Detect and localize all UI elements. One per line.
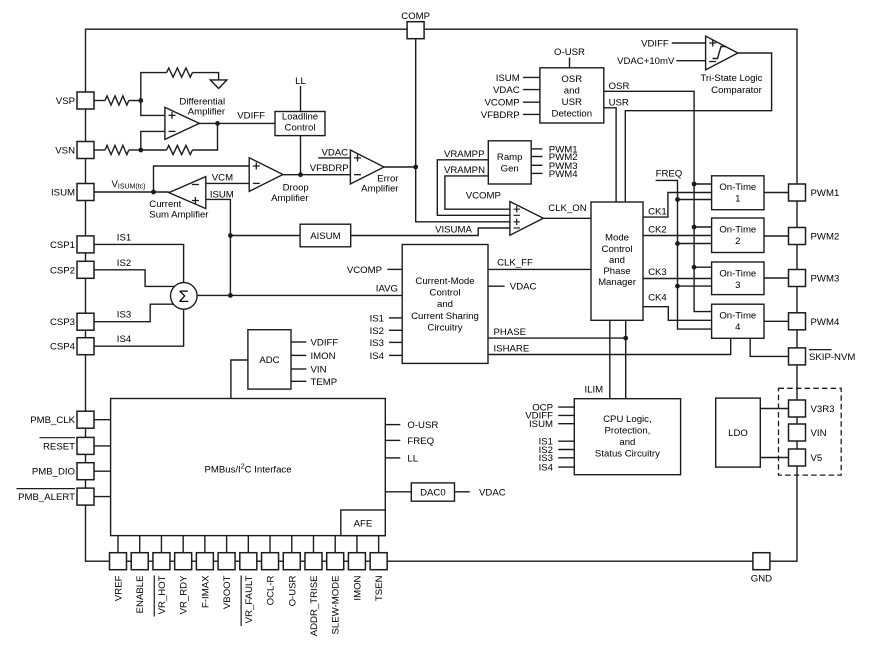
svg-text:VDAC: VDAC [479, 487, 506, 498]
wire PMBus to pin ADDR_TRISE [312, 536, 314, 553]
wire FREQ branch y286.1 [678, 285, 712, 287]
junction PHASE [623, 336, 628, 341]
svg-text:AISUM: AISUM [310, 231, 340, 242]
svg-text:Tri-State Logic: Tri-State Logic [700, 73, 762, 84]
wire PMBus to pin ENABLE [139, 536, 141, 553]
wire PMBus to pin VREF [117, 536, 119, 553]
pin TSEN [370, 553, 387, 570]
wire LL stem [300, 86, 302, 112]
junction ISUM AISUM [228, 233, 233, 238]
svg-text:O-USR: O-USR [287, 575, 298, 606]
svg-text:VISUMA: VISUMA [435, 225, 472, 236]
wire CK4 [643, 307, 712, 321]
svg-text:IS1: IS1 [370, 313, 384, 324]
wire O-USR stub [385, 424, 400, 426]
svg-text:V5: V5 [811, 453, 823, 464]
op-amp error amplifier [350, 150, 384, 184]
wire ILIM [609, 320, 611, 398]
block On-Time 2 [712, 218, 764, 253]
svg-text:IAVG: IAVG [376, 283, 398, 294]
pin SLEW-MODE [327, 553, 344, 570]
op-amp droop amplifier [249, 158, 283, 192]
svg-text:PWM4: PWM4 [811, 317, 840, 328]
wire IS3 stub cm [389, 341, 402, 343]
svg-text:VCM: VCM [212, 173, 233, 184]
svg-text:VDAC+10mV: VDAC+10mV [617, 56, 675, 67]
ground symbol [210, 80, 227, 89]
pin ENABLE [131, 553, 148, 570]
wire On-Time 3 to PWM3 [764, 277, 789, 279]
wire ISUM to AISUM [230, 235, 300, 237]
wire feedback resistor to output [192, 123, 217, 150]
junction OSR y227 [692, 225, 697, 230]
wire VFBDRP to OSR [523, 113, 540, 115]
svg-text:PWM4: PWM4 [549, 169, 578, 180]
svg-text:PWM2: PWM2 [811, 232, 840, 243]
wire error amp output [384, 166, 416, 168]
svg-text:VCOMP: VCOMP [485, 98, 520, 109]
wire ramp PWM1 stub [531, 148, 542, 150]
wire VSN lead [94, 149, 105, 151]
wire IS2 stub cm [389, 329, 402, 331]
svg-text:IMON: IMON [311, 351, 336, 362]
wire CLK_ON [543, 217, 591, 219]
svg-text:CSP4: CSP4 [50, 342, 76, 353]
pin VR_FAULT [240, 553, 257, 570]
svg-text:VR_HOT: VR_HOT [157, 575, 168, 614]
pin PWM2 [789, 228, 806, 245]
svg-text:On-Time: On-Time [719, 182, 756, 193]
svg-text:Amplifier: Amplifier [188, 106, 226, 117]
junction diff amp output [215, 121, 220, 126]
svg-text:LL: LL [295, 76, 306, 87]
wire IS1 stub cm [389, 317, 402, 319]
pin COMP [407, 22, 424, 39]
svg-text:GND: GND [751, 574, 772, 585]
svg-text:VIN: VIN [311, 365, 327, 376]
pin GND [753, 553, 770, 570]
pin VR_RDY [175, 553, 192, 570]
svg-text:Mode: Mode [605, 233, 629, 244]
block Loadline Control [275, 112, 325, 136]
block AISUM [300, 224, 351, 247]
wire VDIFF diff amp output [199, 122, 275, 124]
junction ISUM vert IAVG [228, 293, 233, 298]
svg-text:3: 3 [735, 280, 740, 291]
svg-text:VSN: VSN [55, 146, 75, 157]
svg-text:CSP2: CSP2 [50, 265, 75, 276]
junction FREQ y199.5 [675, 197, 680, 202]
wire PMBus to pin F-IMAX [204, 536, 206, 553]
wire ADC to PMBus [231, 360, 248, 399]
wire IS1 [94, 244, 184, 282]
wire VDAC stub cm [488, 285, 505, 287]
svg-text:Gen: Gen [501, 164, 519, 175]
junction ISUM node [151, 190, 156, 195]
wire PMB_ALERT to PMBus [94, 496, 111, 498]
summer sigma [171, 283, 198, 310]
svg-text:IS4: IS4 [539, 462, 554, 473]
wire PMBus to pin OCL-R [269, 536, 271, 553]
block Mode Control [591, 202, 643, 320]
wire OSR branch y227 [694, 226, 712, 228]
svg-text:1: 1 [735, 194, 740, 205]
svg-text:Control: Control [285, 123, 316, 134]
svg-text:IS4: IS4 [117, 334, 132, 345]
svg-text:Control: Control [602, 244, 633, 255]
pin PWM3 [789, 270, 806, 287]
wire VCOMP to OSR [523, 101, 540, 103]
wire node B to feedback resistor [141, 149, 167, 151]
wire VDAC to OSR [523, 89, 540, 91]
wire ramp PWM2 stub [531, 156, 542, 158]
pin PMB_CLK [77, 411, 94, 428]
wire VISUMA [351, 228, 510, 236]
overline SKIP [809, 349, 832, 351]
svg-text:PMB_CLK: PMB_CLK [30, 415, 75, 426]
wire VCOMP stub cm [387, 268, 402, 270]
wire FREQ stub [385, 439, 400, 441]
svg-text:CSP1: CSP1 [50, 240, 75, 251]
svg-text:ILIM: ILIM [585, 385, 604, 396]
wire IS3 to CPU [558, 457, 574, 459]
svg-text:Amplifier: Amplifier [361, 183, 399, 194]
svg-text:VR_FAULT: VR_FAULT [244, 575, 255, 623]
pin VSP [77, 92, 94, 109]
block PMBus Interface [111, 399, 386, 536]
svg-text:4: 4 [735, 322, 741, 333]
block On-Time 4 [712, 304, 764, 338]
wire VCOMP to comparator [416, 167, 510, 222]
wire CK2 [643, 235, 712, 237]
pin SKIP-NVM [789, 348, 806, 365]
svg-text:RESET: RESET [43, 441, 75, 452]
resistor VSN input [105, 145, 129, 154]
wire VSP lead [94, 100, 105, 102]
svg-text:Detection: Detection [552, 109, 593, 120]
svg-text:VREF: VREF [114, 575, 125, 601]
wire On-Time4 to SKIP-NVM [750, 338, 788, 356]
pin OCL-R [262, 553, 279, 570]
svg-text:USR: USR [562, 97, 582, 108]
wire IS3 [94, 304, 173, 322]
svg-text:VRAMPP: VRAMPP [444, 149, 485, 160]
overline VR_FAULT [240, 576, 242, 627]
wire RESET to PMBus [94, 445, 111, 447]
svg-text:CK1: CK1 [648, 206, 667, 217]
svg-text:FREQ: FREQ [407, 436, 434, 447]
svg-text:ISUM: ISUM [210, 189, 234, 200]
wire FREQ branch y243.5 [678, 243, 712, 245]
wire FREQ net [656, 180, 712, 329]
svg-text:ENABLE: ENABLE [135, 576, 146, 614]
op-amp current sum amplifier [169, 177, 206, 209]
wire ISUM pin to sum amp [94, 191, 169, 193]
svg-text:CK4: CK4 [648, 293, 667, 304]
svg-text:and: and [437, 299, 453, 310]
svg-text:Comparator: Comparator [711, 85, 762, 96]
wire O-USR stem [569, 58, 571, 68]
wire resistor to ground [192, 73, 218, 80]
svg-text:Amplifier: Amplifier [271, 193, 309, 204]
svg-text:OCL-R: OCL-R [266, 575, 277, 605]
junction OSR y267.2 [692, 265, 697, 270]
wire CK3 [643, 278, 712, 280]
junction OSR y184 [692, 182, 697, 187]
svg-text:ISUM: ISUM [529, 419, 553, 430]
wire PMBus to pin SLEW-MODE [334, 536, 336, 553]
wire OSR net [604, 91, 712, 311]
svg-text:USR: USR [609, 97, 629, 108]
junction node A [138, 98, 143, 103]
junction error output COMP [413, 165, 418, 170]
wire PHASE to CPU [625, 320, 627, 398]
svg-text:VBOOT: VBOOT [222, 575, 233, 609]
wire ADC VIN stub [291, 368, 306, 370]
pin VBOOT [218, 553, 235, 570]
wire CLK_FF [488, 268, 591, 270]
wire VSN resistor to node B [129, 149, 141, 151]
wire ISUM to OSR [523, 76, 540, 78]
wire PMBus to pin VR_FAULT [247, 536, 249, 553]
pin ADDR_TRISE [305, 553, 322, 570]
svg-text:Current-Mode: Current-Mode [415, 276, 474, 287]
wire VDAC to error amp + [318, 157, 350, 159]
svg-text:Protection,: Protection, [604, 426, 650, 437]
svg-text:ISUM: ISUM [496, 73, 520, 84]
svg-text:PWM3: PWM3 [811, 274, 840, 285]
wire IS2 [94, 270, 175, 287]
wire ADC IMON stub [291, 354, 306, 356]
wire ramp PWM3 stub [531, 164, 542, 166]
pin VIN [789, 424, 806, 441]
wire node B to diff amp - input [141, 131, 165, 150]
svg-text:ISUM: ISUM [51, 188, 75, 199]
svg-text:Droop: Droop [283, 183, 309, 194]
wire PMBus to DAC0 [385, 491, 411, 493]
wire USR net [604, 108, 616, 202]
svg-text:Circuitry: Circuitry [427, 323, 462, 334]
svg-text:O-USR: O-USR [407, 420, 438, 431]
wire VDIFF to comparator [672, 42, 706, 44]
svg-text:SKIP-NVM: SKIP-NVM [809, 352, 855, 363]
svg-text:IS2: IS2 [117, 258, 131, 269]
svg-text:ADC: ADC [259, 355, 279, 366]
svg-text:Σ: Σ [179, 287, 190, 306]
svg-text:LL: LL [407, 453, 418, 464]
resistor VSP input [105, 96, 129, 105]
block On-Time 1 [712, 176, 764, 210]
svg-text:VDAC: VDAC [510, 282, 537, 293]
overline PMB_ALERT [17, 488, 76, 490]
svg-text:VCOMP: VCOMP [466, 190, 501, 201]
svg-text:VFBDRP: VFBDRP [310, 163, 349, 174]
svg-text:VDAC: VDAC [493, 85, 520, 96]
svg-text:O-USR: O-USR [554, 47, 585, 58]
pin PWM1 [789, 184, 806, 201]
pin F-IMAX [196, 553, 213, 570]
svg-text:VSP: VSP [56, 96, 75, 107]
svg-text:On-Time: On-Time [719, 224, 756, 235]
svg-text:Status Circuitry: Status Circuitry [595, 449, 660, 460]
svg-text:F-IMAX: F-IMAX [200, 575, 211, 608]
svg-text:IS3: IS3 [370, 338, 384, 349]
wire PHASE [488, 337, 626, 339]
svg-text:Manager: Manager [598, 277, 637, 288]
block Current-Mode Control [402, 245, 488, 364]
svg-text:ADDR_TRISE: ADDR_TRISE [309, 576, 320, 637]
wire Loadline to droop output [300, 136, 302, 175]
svg-text:VDAC: VDAC [321, 148, 348, 159]
svg-text:PMBus/I2C Interface: PMBus/I2C Interface [204, 464, 291, 476]
junction FREQ y286.1 [675, 284, 680, 289]
svg-text:VDIFF: VDIFF [237, 111, 265, 122]
wire VRAMPN [445, 176, 510, 209]
wire CK1 [643, 193, 712, 218]
block LDO [716, 398, 761, 467]
svg-text:IMON: IMON [352, 575, 363, 600]
svg-text:ISHARE: ISHARE [494, 344, 530, 355]
junction node B [138, 148, 143, 153]
pin CSP4 [77, 338, 94, 355]
wire node A up to feedback [141, 73, 167, 101]
svg-text:VRAMPN: VRAMPN [444, 165, 485, 176]
wire On-Time 2 to PWM2 [764, 235, 789, 237]
wire ISUM to CPU [558, 423, 574, 425]
wire LL stub [385, 457, 400, 459]
block AFE [341, 510, 386, 536]
wire IS4 stub cm [389, 354, 402, 356]
svg-text:VR_RDY: VR_RDY [179, 575, 190, 615]
pin CSP2 [77, 261, 94, 278]
pin VSN [77, 142, 94, 159]
op-amp differential amplifier [165, 107, 199, 139]
wire ADC VDIFF stub [291, 341, 306, 343]
svg-text:Current Sharing: Current Sharing [411, 311, 479, 322]
svg-text:FREQ: FREQ [656, 168, 683, 179]
svg-text:IS4: IS4 [370, 351, 385, 362]
wire tri-state output [625, 53, 771, 202]
hysteresis symbol [713, 47, 727, 59]
dashed supply box [779, 388, 842, 475]
comparator clock [510, 202, 543, 236]
svg-text:CK2: CK2 [648, 225, 667, 236]
wire VDIFF to CPU [558, 414, 574, 416]
wire ISUM node to droop + input [154, 166, 250, 192]
svg-text:PHASE: PHASE [494, 327, 527, 338]
wire On-Time 4 to PWM4 [764, 320, 789, 322]
wire COMP pin to error amp output [415, 39, 417, 167]
wire On-Time 1 to PWM1 [764, 192, 789, 194]
svg-text:PWM1: PWM1 [811, 188, 840, 199]
wire PMBus to pin VBOOT [226, 536, 228, 553]
wire IAVG sigma output [197, 294, 402, 296]
svg-text:On-Time: On-Time [719, 268, 756, 279]
svg-text:Ramp: Ramp [497, 152, 523, 163]
svg-text:2: 2 [735, 236, 740, 247]
svg-text:V3R3: V3R3 [811, 404, 835, 415]
svg-text:VCOMP: VCOMP [347, 265, 382, 276]
wire FREQ branch y199.5 [678, 199, 712, 201]
svg-text:CLK_ON: CLK_ON [548, 203, 586, 214]
wire ADC TEMP stub [291, 380, 306, 382]
svg-text:LDO: LDO [728, 428, 748, 439]
svg-text:PMB_ALERT: PMB_ALERT [18, 492, 75, 503]
wire IS4 to CPU [558, 466, 574, 468]
wire VCM [206, 182, 249, 184]
svg-text:PMB_DIO: PMB_DIO [32, 467, 75, 478]
wire OCP to CPU [558, 406, 574, 408]
wire OSR branch y184 [694, 183, 712, 185]
wire IS2 to CPU [558, 449, 574, 451]
pin VREF [110, 553, 127, 570]
wire LDO to V5 [760, 457, 788, 459]
overline VR_HOT [153, 576, 155, 617]
svg-text:IS3: IS3 [117, 310, 131, 321]
block CPU Logic [574, 399, 680, 475]
block Ramp Gen [488, 141, 531, 184]
wire ISHARE [488, 338, 731, 354]
wire PMBus to pin TSEN [378, 536, 380, 553]
wire PMBus to pin O-USR [291, 536, 293, 553]
svg-text:Phase: Phase [603, 266, 630, 277]
pin RESET [77, 437, 94, 454]
wire PMBus to pin IMON [356, 536, 358, 553]
wire VDAC+10mV to comparator [676, 60, 705, 62]
wire VRAMPP [437, 160, 510, 216]
resistor VSP to ground [167, 68, 193, 77]
svg-text:TEMP: TEMP [311, 377, 338, 388]
junction loadline droop [298, 172, 303, 177]
pin ISUM [77, 184, 94, 201]
wire PMB_DIO to PMBus [94, 470, 111, 472]
svg-text:CSP3: CSP3 [50, 317, 75, 328]
svg-text:Control: Control [430, 288, 461, 299]
pin VR_HOT [153, 553, 170, 570]
wire OSR branch y267.2 [694, 266, 712, 268]
wire PMB_CLK to PMBus [94, 419, 111, 421]
svg-text:DAC0: DAC0 [420, 488, 446, 499]
svg-text:SLEW-MODE: SLEW-MODE [331, 576, 342, 635]
overline RESET [40, 437, 76, 439]
wire LDO to V3R3 [760, 408, 788, 410]
comparator tri-state [706, 36, 738, 70]
svg-text:IS2: IS2 [370, 326, 384, 337]
svg-text:CK3: CK3 [648, 267, 667, 278]
pin IMON [348, 553, 365, 570]
svg-text:and: and [619, 437, 635, 448]
svg-text:VDIFF: VDIFF [311, 338, 339, 349]
pin O-USR [283, 553, 300, 570]
chip outline [86, 29, 798, 561]
pin CSP3 [77, 313, 94, 330]
svg-text:CPU Logic,: CPU Logic, [603, 414, 652, 425]
pin PMB_DIO [77, 463, 94, 480]
svg-text:VDIFF: VDIFF [641, 39, 669, 50]
wire node A to diff amp + input [141, 101, 165, 116]
svg-text:TSEN: TSEN [374, 575, 385, 601]
block ADC [248, 330, 291, 389]
svg-text:CLK_FF: CLK_FF [497, 257, 533, 268]
pin V5 [789, 449, 806, 466]
svg-text:Loadline: Loadline [282, 112, 318, 123]
pin PMB_ALERT [77, 488, 94, 505]
junction FREQ y243.5 [675, 241, 680, 246]
svg-text:OSR: OSR [561, 74, 582, 85]
pin PWM4 [789, 313, 806, 330]
svg-text:and: and [564, 86, 580, 97]
wire ramp PWM4 stub [531, 172, 542, 174]
